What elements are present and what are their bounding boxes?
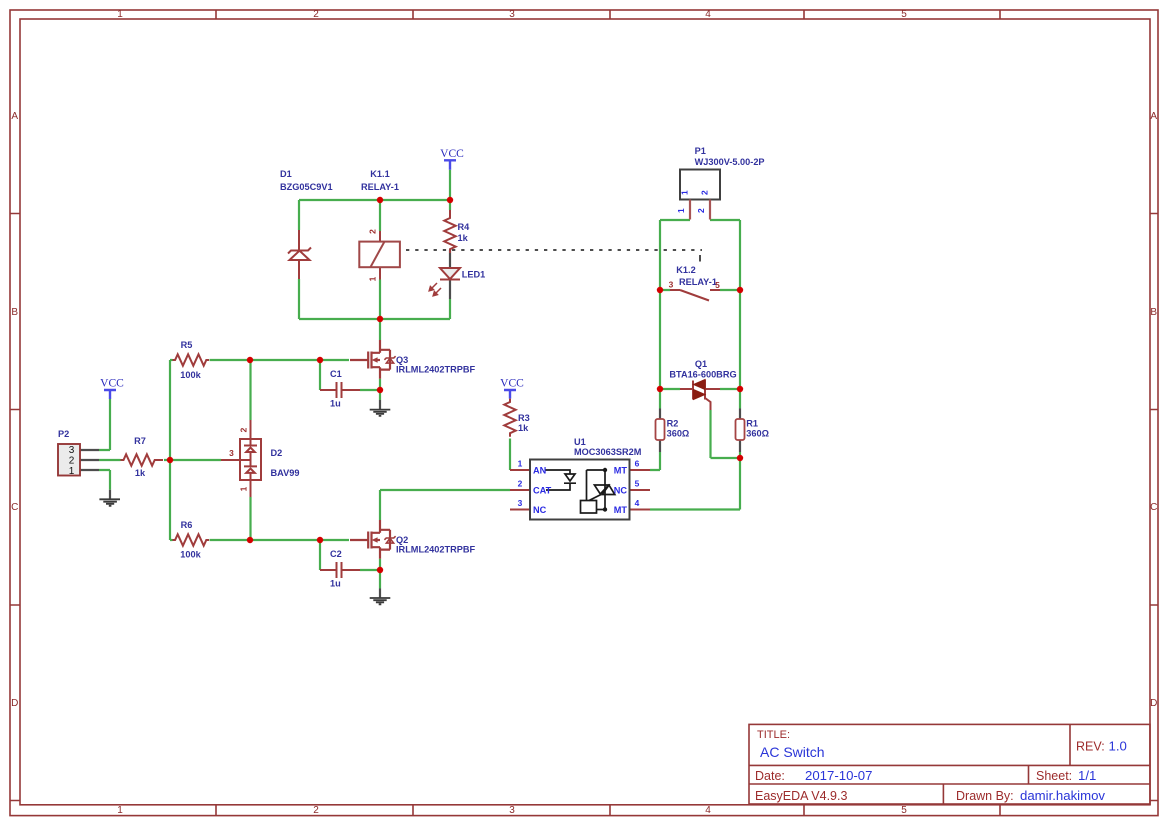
- svg-text:C1: C1: [330, 369, 342, 379]
- svg-text:Q3: Q3: [396, 355, 408, 365]
- svg-text:AN: AN: [533, 466, 547, 476]
- svg-text:2: 2: [518, 479, 523, 489]
- svg-text:CAT: CAT: [533, 486, 552, 496]
- svg-text:D: D: [11, 698, 18, 709]
- svg-text:2: 2: [69, 455, 75, 466]
- svg-text:1: 1: [676, 208, 686, 213]
- svg-text:K1.1: K1.1: [370, 169, 389, 179]
- svg-text:BTA16-600BRG: BTA16-600BRG: [669, 370, 736, 380]
- svg-text:1.0: 1.0: [1109, 739, 1127, 754]
- svg-text:1/1: 1/1: [1078, 768, 1096, 783]
- svg-text:RELAY-1: RELAY-1: [361, 182, 399, 192]
- svg-text:VCC: VCC: [440, 148, 464, 160]
- svg-text:IRLML2402TRPBF: IRLML2402TRPBF: [396, 545, 476, 555]
- svg-text:R3: R3: [518, 413, 530, 423]
- svg-text:3: 3: [518, 498, 523, 508]
- svg-text:5: 5: [901, 9, 907, 20]
- svg-text:Date:: Date:: [755, 769, 785, 783]
- svg-text:Q1: Q1: [695, 359, 707, 369]
- svg-text:P1: P1: [695, 146, 706, 156]
- svg-text:2: 2: [313, 805, 319, 816]
- svg-text:1: 1: [518, 459, 523, 469]
- svg-text:TITLE:: TITLE:: [757, 729, 790, 741]
- svg-text:R5: R5: [181, 340, 193, 350]
- svg-text:1k: 1k: [458, 233, 469, 243]
- svg-text:3: 3: [229, 448, 234, 458]
- svg-text:100k: 100k: [180, 370, 201, 380]
- svg-text:1u: 1u: [330, 398, 341, 408]
- svg-text:damir.hakimov: damir.hakimov: [1020, 788, 1105, 803]
- svg-text:D1: D1: [280, 169, 292, 179]
- svg-text:Sheet:: Sheet:: [1036, 769, 1072, 783]
- svg-text:5: 5: [901, 805, 907, 816]
- svg-text:MOC3063SR2M: MOC3063SR2M: [574, 447, 642, 457]
- svg-text:Q2: Q2: [396, 535, 408, 545]
- svg-text:R6: R6: [181, 520, 193, 530]
- svg-text:360Ω: 360Ω: [746, 429, 769, 439]
- svg-text:1: 1: [117, 9, 123, 20]
- svg-text:4: 4: [705, 805, 711, 816]
- svg-text:R2: R2: [667, 419, 679, 429]
- svg-text:K1.2: K1.2: [676, 265, 695, 275]
- svg-text:1: 1: [368, 276, 378, 281]
- svg-text:2: 2: [700, 190, 710, 195]
- svg-text:REV:: REV:: [1076, 740, 1105, 754]
- svg-text:2: 2: [313, 9, 319, 20]
- svg-text:3: 3: [509, 9, 515, 20]
- svg-text:BZG05C9V1: BZG05C9V1: [280, 182, 333, 192]
- svg-text:P2: P2: [58, 429, 69, 439]
- svg-text:EasyEDA V4.9.3: EasyEDA V4.9.3: [755, 789, 847, 803]
- svg-text:C: C: [1150, 502, 1157, 513]
- svg-text:3: 3: [669, 280, 674, 290]
- svg-text:1k: 1k: [135, 468, 146, 478]
- svg-text:2: 2: [239, 427, 249, 432]
- svg-text:A: A: [1150, 111, 1157, 122]
- svg-text:1: 1: [69, 466, 75, 477]
- svg-text:1: 1: [680, 190, 690, 195]
- svg-text:6: 6: [635, 459, 640, 469]
- svg-text:C2: C2: [330, 549, 342, 559]
- svg-text:Drawn By:: Drawn By:: [956, 789, 1014, 803]
- svg-text:IRLML2402TRPBF: IRLML2402TRPBF: [396, 365, 476, 375]
- svg-text:100k: 100k: [180, 550, 201, 560]
- svg-text:VCC: VCC: [100, 378, 124, 390]
- svg-text:5: 5: [635, 479, 640, 489]
- svg-text:B: B: [1150, 307, 1157, 318]
- svg-text:1k: 1k: [518, 423, 529, 433]
- svg-text:D2: D2: [271, 448, 283, 458]
- svg-text:360Ω: 360Ω: [667, 429, 690, 439]
- svg-text:1: 1: [239, 486, 249, 491]
- svg-text:1: 1: [117, 805, 123, 816]
- svg-text:BAV99: BAV99: [271, 468, 300, 478]
- svg-text:R4: R4: [458, 222, 471, 232]
- svg-text:5: 5: [715, 280, 720, 290]
- svg-text:2: 2: [368, 229, 378, 234]
- svg-text:4: 4: [635, 498, 640, 508]
- svg-text:R1: R1: [746, 419, 758, 429]
- svg-text:B: B: [11, 307, 18, 318]
- svg-text:A: A: [11, 111, 18, 122]
- svg-text:NC: NC: [614, 486, 628, 496]
- svg-text:C: C: [11, 502, 18, 513]
- svg-text:MT: MT: [614, 505, 628, 515]
- svg-text:VCC: VCC: [500, 378, 524, 390]
- svg-text:MT: MT: [614, 466, 628, 476]
- svg-text:NC: NC: [533, 505, 547, 515]
- svg-text:2: 2: [696, 208, 706, 213]
- svg-text:R7: R7: [134, 436, 146, 446]
- svg-text:3: 3: [69, 445, 75, 456]
- svg-text:RELAY-1: RELAY-1: [679, 277, 717, 287]
- svg-text:LED1: LED1: [462, 270, 486, 280]
- svg-text:AC Switch: AC Switch: [760, 744, 825, 760]
- svg-text:WJ300V-5.00-2P: WJ300V-5.00-2P: [695, 157, 765, 167]
- svg-text:4: 4: [705, 9, 711, 20]
- svg-text:1u: 1u: [330, 579, 341, 589]
- svg-text:3: 3: [509, 805, 515, 816]
- svg-text:U1: U1: [574, 437, 586, 447]
- svg-text:D: D: [1150, 698, 1157, 709]
- svg-text:2017-10-07: 2017-10-07: [805, 768, 872, 783]
